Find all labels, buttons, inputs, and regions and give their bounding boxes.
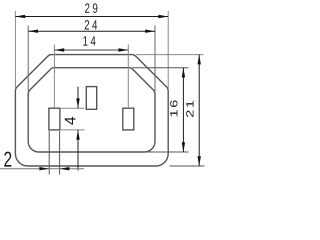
inner contour (recess 24x16) <box>28 68 155 152</box>
pin N (right contact slot) <box>123 108 134 130</box>
extension line top for dim 16 (recess top edge) <box>133 67 189 69</box>
arrow left of dim 29 <box>15 15 25 18</box>
arrow left of dim 14 <box>54 48 64 51</box>
arrow top of dim 16 <box>182 68 185 78</box>
arrow bottom of dim 21 <box>198 156 201 166</box>
extension line right for dim 2 (pin L right edge) <box>59 131 61 175</box>
dim text 16 (rotated) <box>170 100 177 116</box>
arrow left of dim 24 <box>28 30 38 33</box>
arrow right of dim 14 <box>119 48 129 51</box>
extension line right for dim 14 (pin N centerline) <box>127 45 129 109</box>
dimension line 16 <box>182 68 184 152</box>
pin E (center earth slot) <box>86 87 96 110</box>
extension line bottom for dim 21 (flange bottom edge) <box>170 165 205 167</box>
dim text 2 <box>4 152 11 167</box>
dim text 21 (rotated) <box>186 101 193 117</box>
dim text 24 <box>85 20 97 29</box>
arrow down of dim 4 <box>76 98 79 108</box>
dim text 29 <box>85 3 97 13</box>
arrow right of dim 24 <box>145 30 155 33</box>
dim text 4 (rotated) <box>65 117 76 125</box>
extension line bottom for dim 4 (pin L bottom) <box>61 129 85 131</box>
dimension line 2 <box>0 168 84 170</box>
arrow bottom of dim 16 <box>182 142 185 152</box>
extension line left for dim 2 (pin L left edge) <box>48 131 50 175</box>
extension line top for dim 4 (pin L top) <box>61 107 85 109</box>
dim 4 lower arrow shaft <box>77 130 79 171</box>
arrow rightward-in of dim 2 <box>39 167 49 170</box>
arrow up of dim 4 <box>76 130 79 140</box>
extension line left for dim 29 <box>14 11 16 88</box>
arrow right of dim 29 <box>158 15 168 18</box>
outer contour (connector flange 29x21) <box>15 55 168 166</box>
extension line left for dim 24 <box>27 26 29 92</box>
extension line right for dim 29 <box>167 11 169 88</box>
arrow top of dim 21 <box>198 55 201 65</box>
dim text 14 <box>83 36 95 45</box>
dimension line 14 <box>54 49 128 51</box>
extension line right for dim 24 <box>154 26 156 92</box>
extension line top for dim 21 (flange top edge) <box>136 54 204 56</box>
extension line left for dim 14 (pin L centerline) <box>53 45 55 109</box>
dimension line 21 <box>198 55 200 166</box>
extension line bottom for dim 16 (recess bottom edge) <box>147 151 189 153</box>
pin L (left contact slot) <box>49 108 60 130</box>
dimension line 24 <box>28 30 155 32</box>
arrow leftward-in of dim 2 <box>60 167 70 170</box>
dim 4 upper arrow shaft <box>77 87 79 109</box>
dimension line 29 <box>15 16 168 18</box>
